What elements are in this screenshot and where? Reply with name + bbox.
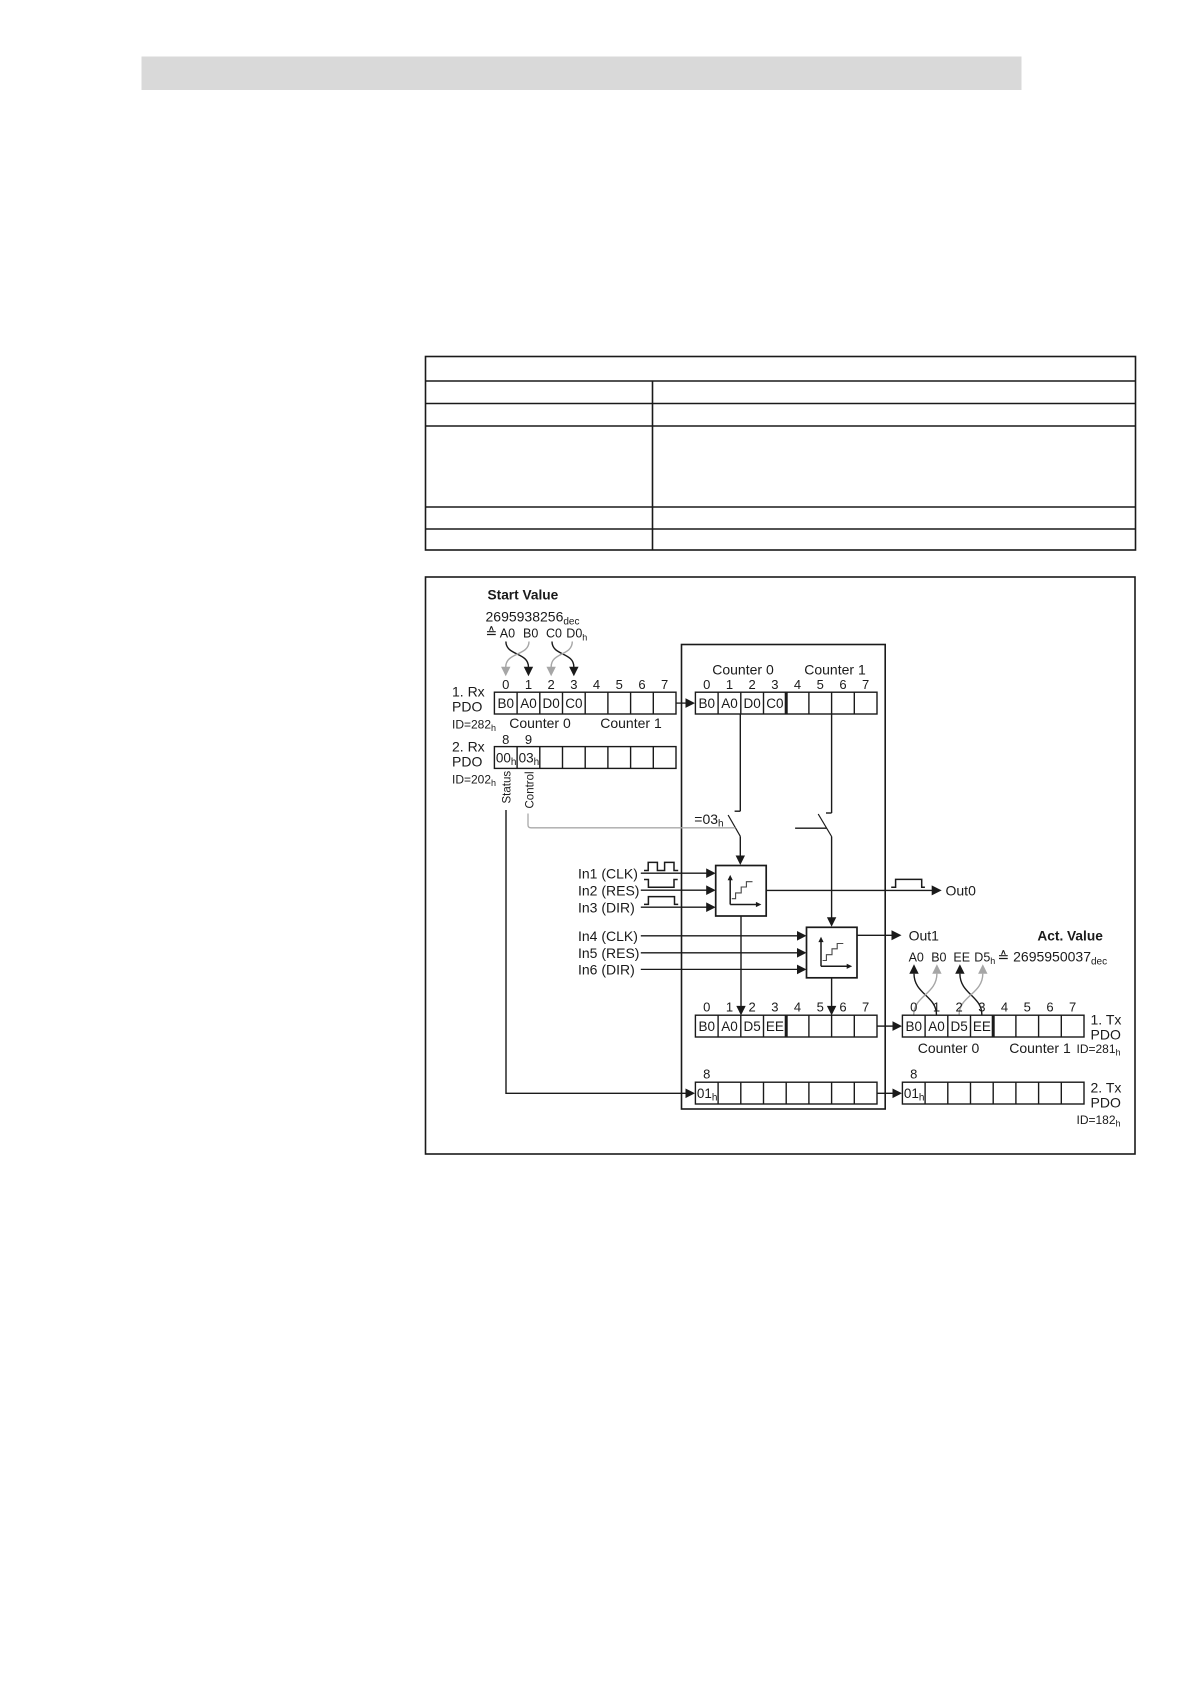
arrow byte1 to A0 (black) [914,974,936,1015]
svg-text:6: 6 [1046,1000,1053,1015]
device top byte values [698,696,783,711]
wire switch1 to counter block [739,836,741,856]
svg-text:3: 3 [570,677,577,692]
arrow C0 to byte3 (black) [552,642,574,668]
In3 wire [641,906,708,908]
svg-text:Out0: Out0 [946,882,977,898]
svg-text:2. Rx: 2. Rx [452,739,485,755]
CLK waveform icon [644,862,678,870]
svg-text:2: 2 [956,1000,963,1015]
svg-text:7: 7 [1069,1000,1076,1015]
svg-text:4: 4 [794,677,801,692]
svg-text:8: 8 [703,1067,710,1082]
svg-text:1: 1 [525,677,532,692]
2. Rx PDO byte array [494,747,676,769]
svg-text:D0: D0 [543,696,560,711]
wire counter1 data down [831,714,833,813]
wire device status to 2.Tx PDO [877,1092,893,1094]
device result byte array [695,1015,877,1037]
bit numbers 0-7 over 1.Rx array [502,677,668,692]
Out1 wire [857,934,892,936]
switch 1 blade [728,815,740,836]
device result byte values [698,1019,783,1034]
switch 2 blade [818,814,831,837]
svg-text:PDO: PDO [1091,1095,1121,1111]
table column divider [652,381,654,550]
svg-text:Out1: Out1 [909,927,940,943]
svg-text:5: 5 [1024,1000,1031,1015]
svg-text:5: 5 [616,677,623,692]
svg-text:D5: D5 [744,1019,761,1034]
svg-text:B0: B0 [698,1019,715,1034]
svg-text:B0: B0 [497,696,514,711]
arrow D0 to byte2 (gray) [551,642,572,668]
counter block 0 [716,866,767,917]
svg-text:D5: D5 [951,1019,968,1034]
In4 wire [641,935,799,937]
gray header bar [142,57,1022,91]
svg-text:In6 (DIR): In6 (DIR) [578,962,635,978]
svg-text:4: 4 [1001,1000,1008,1015]
svg-text:In4 (CLK): In4 (CLK) [578,928,638,944]
svg-text:0: 0 [910,1000,917,1015]
svg-text:2: 2 [749,1000,756,1015]
In2 wire [641,889,708,891]
svg-text:4: 4 [794,1000,801,1015]
svg-text:Counter 0: Counter 0 [509,715,571,731]
svg-text:1. Rx: 1. Rx [452,684,485,700]
arrow B0 to byte0 (gray) [506,642,529,668]
arrow A0 to byte1 (black) [506,642,529,668]
svg-text:01h: 01h [904,1086,925,1104]
svg-text:=03h: =03h [694,811,723,830]
svg-text:ID=281h: ID=281h [1077,1042,1121,1057]
arrow byte2 to D5 (gray) [959,974,983,1015]
wire counter block 1 to result array [831,978,833,1007]
svg-text:B0: B0 [905,1019,922,1034]
svg-text:A0: A0 [721,1019,738,1034]
arrow byte0 to B0 (gray) [914,974,937,1015]
svg-text:≙A0B0C0D0h: ≙A0B0C0D0h [486,625,588,643]
svg-text:Control: Control [525,771,537,808]
svg-text:03h: 03h [519,750,540,768]
device status byte array [695,1082,877,1104]
svg-text:A0B0EED5h≙ 2695950037dec: A0B0EED5h≙ 2695950037dec [909,948,1108,967]
svg-text:Status: Status [502,771,514,804]
1. Rx PDO byte values [497,696,582,711]
svg-text:Counter 0: Counter 0 [712,662,774,678]
1. Tx PDO byte values [905,1019,990,1034]
Out0 pulse icon [891,879,925,887]
svg-text:Start Value: Start Value [488,588,559,603]
In1 wire [641,872,708,874]
svg-text:3: 3 [978,1000,985,1015]
svg-text:2. Tx: 2. Tx [1091,1080,1122,1096]
1. Rx PDO byte array [494,692,676,714]
svg-text:A0: A0 [520,696,537,711]
table frame [426,357,1136,551]
svg-text:8: 8 [502,732,509,747]
svg-text:9: 9 [525,732,532,747]
svg-text:1: 1 [933,1000,940,1015]
wire switch2 to counter block 2 [831,837,833,919]
svg-text:EE: EE [766,1019,784,1034]
svg-text:6: 6 [638,677,645,692]
svg-text:7: 7 [862,1000,869,1015]
svg-text:00h: 00h [496,750,517,768]
svg-text:A0: A0 [721,696,738,711]
wire 1.Rx to device [676,702,687,704]
bit numbers over device top array [703,677,869,692]
svg-text:In1 (CLK): In1 (CLK) [578,865,638,881]
2. Tx PDO byte array [902,1082,1084,1104]
Out0 wire [766,889,932,891]
switch 2 control stub [795,827,826,829]
bit numbers over device result array [703,1000,869,1015]
svg-text:0: 0 [703,1000,710,1015]
DIR waveform icon [644,897,678,905]
svg-text:ID=282h: ID=282h [452,718,496,733]
svg-text:4: 4 [593,677,600,692]
svg-text:In2 (RES): In2 (RES) [578,882,639,898]
status wire from 00h to 2.Tx path [506,810,690,1093]
svg-text:7: 7 [661,677,668,692]
svg-text:PDO: PDO [1091,1027,1121,1043]
RES waveform icon [644,880,678,888]
wire device result to 1.Tx PDO [877,1025,893,1027]
svg-text:Act. Value: Act. Value [1037,928,1103,943]
svg-text:0: 0 [502,677,509,692]
device inner box [682,645,886,1110]
counter block 1 [807,927,858,978]
svg-text:In3 (DIR): In3 (DIR) [578,899,635,915]
wire counter block 0 to result array [740,916,742,1007]
svg-text:5: 5 [817,1000,824,1015]
arrow byte3 to EE (black) [960,974,982,1015]
svg-text:2695938256dec: 2695938256dec [486,609,580,628]
In5 wire [641,952,799,954]
svg-text:2: 2 [749,677,756,692]
wire counter0 data down [739,714,741,811]
svg-text:3: 3 [771,1000,778,1015]
device top byte array [695,692,877,714]
diagram outer frame [426,577,1136,1154]
svg-text:7: 7 [862,677,869,692]
bit numbers over 1.Tx array [910,1000,1076,1015]
1. Tx PDO byte array [902,1015,1084,1037]
svg-text:EE: EE [973,1019,991,1034]
svg-text:PDO: PDO [452,699,482,715]
svg-text:5: 5 [817,677,824,692]
svg-text:C0: C0 [766,696,783,711]
svg-text:Counter 1: Counter 1 [804,662,866,678]
svg-text:D0: D0 [744,696,761,711]
svg-text:Counter 1: Counter 1 [1009,1040,1071,1056]
svg-text:01h: 01h [697,1086,718,1104]
svg-text:1. Tx: 1. Tx [1091,1012,1122,1028]
svg-text:8: 8 [910,1067,917,1082]
svg-text:C0: C0 [565,696,582,711]
svg-text:A0: A0 [928,1019,945,1034]
control wire from 03h to switch1 (gray) [528,814,735,828]
svg-text:6: 6 [839,677,846,692]
svg-text:Counter 1: Counter 1 [600,715,662,731]
svg-text:3: 3 [771,677,778,692]
svg-text:1: 1 [726,677,733,692]
svg-text:1: 1 [726,1000,733,1015]
svg-text:In5 (RES): In5 (RES) [578,945,639,961]
svg-text:6: 6 [839,1000,846,1015]
svg-text:PDO: PDO [452,754,482,770]
svg-text:0: 0 [703,677,710,692]
svg-text:2: 2 [548,677,555,692]
In6 wire [641,968,799,970]
svg-text:ID=182h: ID=182h [1077,1113,1121,1128]
svg-text:ID=202h: ID=202h [452,773,496,788]
svg-text:B0: B0 [698,696,715,711]
svg-text:Counter 0: Counter 0 [918,1040,980,1056]
